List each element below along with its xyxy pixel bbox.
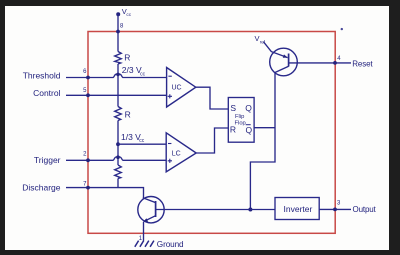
op-amp LC (lower comparator) [166,133,196,172]
Q2 emitter diagonal [144,216,156,222]
dot at trigger hop apex [116,155,120,159]
svg-text:Ground: Ground [157,240,184,249]
LC non-inverting input plus sign [168,159,172,163]
wire: 1/3 Vcc node to LC inverting input [118,143,166,145]
svg-text:Reset: Reset [352,59,373,68]
transistor Q1 (reset, PNP) body [270,48,298,76]
resistor R (middle) [115,107,122,121]
svg-text:UC: UC [172,85,182,92]
wire: Qbar output to emitter rail [254,127,275,129]
Q2 base bar [155,201,157,217]
svg-text:cc: cc [139,138,145,144]
svg-text:Trigger: Trigger [34,155,61,165]
Q1 Vref lead [264,42,288,58]
transistor Q2 (discharge, NPN) body [138,197,164,223]
junction dot: output crosses IC boundary [333,208,337,212]
Q1 emitter arrowhead [283,54,288,57]
svg-text:1/3 V: 1/3 V [121,132,141,142]
wire: Q2 base to inverter input [156,209,275,211]
svg-text:S: S [230,103,236,113]
dot at threshold hop apex [116,73,120,77]
Q2 emitter arrowhead [143,218,148,222]
svg-text:Output: Output [353,205,377,214]
junction dot: trigger crosses IC boundary [86,158,90,162]
svg-text:ref: ref [260,40,266,45]
svg-text:Discharge: Discharge [22,182,61,192]
junction dot: threshold crosses IC boundary [86,76,90,80]
op-amp UC (upper comparator) [167,68,196,108]
svg-text:LC: LC [172,150,181,157]
ground symbol (hatch) [135,241,154,247]
svg-text:Flop: Flop [235,121,246,127]
svg-text:Control: Control [33,88,61,98]
svg-text:Flip: Flip [235,114,244,120]
stray dot (top right) [341,28,343,30]
LC inverting input minus sign [168,143,171,145]
IC boundary (red box) [88,32,335,234]
resistor R (bottom, unlabeled) [115,165,122,179]
svg-text:Threshold: Threshold [23,70,61,80]
wire: Vcc rail (vertical divider chain) [117,14,119,187]
resistor R (top) [115,52,122,65]
svg-text:cc: cc [140,71,146,77]
junction: Vcc rail crosses IC boundary [116,30,120,34]
UC non-inverting input plus sign [168,94,172,98]
junction dot: control crosses IC boundary [86,93,90,97]
wire: trigger line with crossover hop [66,157,166,160]
wire: inverter output to Output pin [319,208,351,210]
svg-text:V: V [255,34,260,43]
junction: base node dot [248,208,252,212]
wire: Q1 collector down, jog to base node [250,73,275,210]
svg-text:Q: Q [245,103,252,113]
wire: threshold line with crossover hop [66,74,167,77]
svg-text:R: R [125,110,131,120]
inverter box [275,198,319,220]
flip-flop U1 box [228,98,254,143]
svg-text:Inverter: Inverter [284,204,313,214]
svg-text:2/3 V: 2/3 V [122,65,142,75]
svg-text:cc: cc [126,13,131,18]
wire: LC output to flip-flop R input [196,128,228,153]
Q1 collector diagonal [275,66,289,72]
svg-text:R: R [230,124,236,134]
UC inverting input minus sign [168,75,171,77]
junction: 1/3 Vcc node dot [116,142,120,146]
wire: Q1 base to Reset pin [289,62,351,64]
junction dot: reset crosses IC boundary [333,61,337,65]
Q1 base bar [288,54,290,67]
svg-text:R: R [124,52,130,62]
junction dot: discharge crosses IC boundary [86,186,90,190]
Vcc terminal dot [116,12,120,16]
Q2 collector diagonal [143,198,156,203]
svg-text:Q: Q [246,125,253,135]
wire: UC output to flip-flop S input [196,87,229,109]
wire: discharge line [66,188,144,199]
wire: control line [66,94,167,96]
wire: Q2 emitter to ground [143,222,145,241]
